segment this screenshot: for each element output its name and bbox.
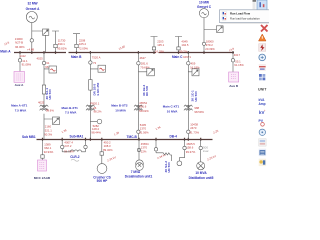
svg-text:UNIT: UNIT <box>258 88 267 92</box>
svg-text:92.93%: 92.93% <box>44 150 54 154</box>
svg-text:Aux B: Aux B <box>229 84 239 88</box>
svg-text:10 MVA: 10 MVA <box>195 171 207 175</box>
svg-text:Aux A: Aux A <box>15 83 25 87</box>
svg-text:20.39%: 20.39% <box>205 47 215 51</box>
svg-text:N2T-B: N2T-B <box>15 41 23 45</box>
svg-text:7520 A: 7520 A <box>92 55 101 59</box>
svg-text:Distillation unit5: Distillation unit5 <box>189 176 214 180</box>
svg-text:UC 500: UC 500 <box>167 162 171 173</box>
svg-text:72.09%: 72.09% <box>78 47 88 51</box>
svg-text:91.08%: 91.08% <box>22 63 32 67</box>
svg-text:Amp: Amp <box>259 102 266 106</box>
svg-text:105.2: 105.2 <box>79 42 86 46</box>
svg-text:95.82%: 95.82% <box>57 47 67 51</box>
svg-text:Main B: Main B <box>71 55 82 59</box>
svg-text:UC 500: UC 500 <box>48 89 52 100</box>
svg-text:UC 500: UC 500 <box>194 91 198 102</box>
svg-text:73: 73 <box>93 61 97 65</box>
svg-text:Genset A: Genset A <box>26 7 41 11</box>
svg-text:96.06%: 96.06% <box>15 45 25 49</box>
svg-text:247.2: 247.2 <box>64 144 71 148</box>
svg-text:194.5: 194.5 <box>181 43 188 47</box>
svg-text:Main A-XT1: Main A-XT1 <box>11 104 28 108</box>
svg-text:Sub-MA1: Sub-MA1 <box>70 134 84 138</box>
svg-text:1412: 1412 <box>20 54 27 58</box>
svg-text:135.1: 135.1 <box>157 43 164 47</box>
svg-text:Run load flow calculation: Run load flow calculation <box>230 17 260 21</box>
svg-text:91.56%: 91.56% <box>139 130 149 134</box>
svg-text:4025: 4025 <box>38 100 45 104</box>
svg-text:90.3%: 90.3% <box>44 132 52 136</box>
svg-text:Main C: Main C <box>172 55 183 59</box>
svg-text:22%: 22% <box>141 150 147 154</box>
svg-text:99.7%: 99.7% <box>179 49 187 53</box>
svg-text:4617: 4617 <box>234 53 241 57</box>
svg-text:98.02%: 98.02% <box>139 109 149 113</box>
svg-text:91.15%: 91.15% <box>234 63 244 67</box>
svg-text:Sub MB1: Sub MB1 <box>22 135 36 139</box>
svg-text:Main B-XT2: Main B-XT2 <box>111 104 128 108</box>
svg-text:kvar: kvar <box>203 149 209 153</box>
svg-text:MCC 2AAB: MCC 2AAB <box>34 176 51 180</box>
svg-text:581.6: 581.6 <box>139 105 146 109</box>
svg-text:10971: 10971 <box>183 55 191 59</box>
svg-text:89.32%: 89.32% <box>103 148 113 152</box>
svg-text:16.29A: 16.29A <box>155 49 164 53</box>
svg-text:+4.88: +4.88 <box>27 48 35 52</box>
svg-text:DB-4: DB-4 <box>170 135 178 139</box>
svg-text:98.44%: 98.44% <box>91 130 101 134</box>
svg-text:98.6%: 98.6% <box>46 109 54 113</box>
svg-text:Main A: Main A <box>0 50 11 54</box>
svg-text:99.37%: 99.37% <box>186 150 196 154</box>
svg-text:91.73%: 91.73% <box>190 130 200 134</box>
svg-text:4025: 4025 <box>37 57 44 61</box>
svg-text:98.59%: 98.59% <box>194 110 204 114</box>
svg-text:Desalination unit1: Desalination unit1 <box>125 174 153 178</box>
svg-text:P820.1: P820.1 <box>91 101 100 105</box>
svg-text:Genset C: Genset C <box>197 5 212 9</box>
svg-text:Run Load Flow: Run Load Flow <box>230 12 251 16</box>
svg-text:2473: 2473 <box>190 126 197 130</box>
svg-text:10 MVA: 10 MVA <box>115 109 126 113</box>
svg-text:Main C-XT1: Main C-XT1 <box>163 105 180 109</box>
svg-text:UC 500: UC 500 <box>145 85 149 96</box>
svg-text:TMC-B: TMC-B <box>127 135 138 139</box>
svg-text:7 MVA: 7 MVA <box>131 170 141 174</box>
svg-text:7.5 MVA: 7.5 MVA <box>15 108 27 112</box>
svg-text:490.1: 490.1 <box>58 42 65 46</box>
svg-text:Main B-XT1: Main B-XT1 <box>62 106 79 110</box>
svg-text:CLR-2: CLR-2 <box>70 155 80 159</box>
svg-text:500 HP: 500 HP <box>97 179 109 183</box>
svg-text:32 MW: 32 MW <box>27 2 37 6</box>
svg-text:98.2%: 98.2% <box>94 109 102 113</box>
svg-text:10 MVA: 10 MVA <box>167 109 178 113</box>
svg-text:b UC 250: b UC 250 <box>96 82 100 95</box>
svg-text:7.5 MVA: 7.5 MVA <box>65 111 77 115</box>
svg-text:4627: 4627 <box>140 56 147 60</box>
